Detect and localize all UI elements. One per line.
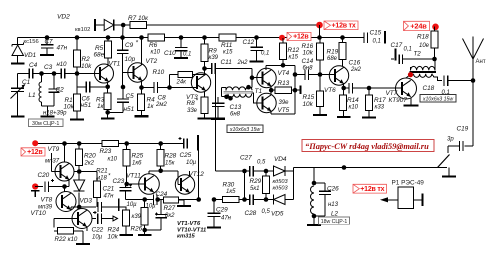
svg-text:н10: н10	[57, 62, 68, 68]
svg-text:VT7: VT7	[386, 90, 398, 97]
svg-text:х10х6х3 15w: х10х6х3 15w	[422, 96, 455, 102]
svg-text:VT4: VT4	[278, 70, 290, 77]
VT3 collector node	[202, 66, 207, 71]
junction bar	[118, 199, 120, 212]
svg-text:C1: C1	[22, 79, 31, 86]
svg-text:15к: 15к	[165, 161, 176, 167]
svg-text:C22: C22	[92, 227, 104, 234]
svg-text:R13: R13	[278, 80, 290, 87]
resistor R12 k15	[282, 38, 284, 43]
capacitor C26 n13	[314, 182, 325, 184]
svg-text:L1: L1	[29, 92, 37, 99]
VT8 emitter to audio wire	[70, 207, 72, 210]
capacitor C13 6n8	[217, 97, 219, 103]
transformer T1	[222, 87, 227, 89]
capacitor C25 10u output	[178, 138, 181, 140]
label +12в тх near relay	[353, 184, 387, 193]
transistor VT1	[95, 64, 114, 83]
resistor R2 10k	[75, 35, 80, 40]
capacitor C21 47n	[97, 202, 99, 212]
resistor R4 1k	[141, 88, 143, 95]
svg-text:+12в: +12в	[293, 34, 309, 41]
transistor VT9 мп37	[55, 162, 74, 181]
svg-text:2м2: 2м2	[155, 102, 167, 108]
capacitor C10 0.1	[179, 35, 184, 40]
svg-text:2к2: 2к2	[84, 161, 95, 167]
node C8-R10-VT3 base	[167, 85, 172, 90]
svg-text:мп37: мп37	[45, 159, 60, 165]
svg-text:Т1: Т1	[255, 88, 263, 95]
RX line down from C11 to limiter	[215, 74, 217, 171]
capacitor C6 n51	[77, 86, 86, 88]
capacitor C18 0.1	[443, 75, 445, 86]
node VT7 collector red dot	[406, 75, 410, 78]
svg-text:VT6: VT6	[324, 87, 336, 94]
svg-text:VT12: VT12	[189, 171, 205, 178]
svg-text:к10: к10	[349, 105, 359, 111]
capacitor C19 3p	[465, 145, 473, 147]
RX input wire y=73.5	[18, 73, 30, 75]
wire rail A +12v tx, y=25	[95, 24, 130, 26]
transistor VT6	[329, 66, 348, 85]
svg-text:3р: 3р	[447, 137, 454, 143]
resistor R20 2k2	[77, 141, 82, 146]
ground under R14	[343, 116, 345, 118]
svg-text:Р1 РЭС-49: Р1 РЭС-49	[392, 180, 425, 187]
svg-text:0,1: 0,1	[183, 52, 191, 58]
resistor R17 k33	[368, 88, 370, 95]
resistor R1 10k	[76, 74, 78, 95]
svg-text:24к: 24к	[176, 80, 188, 86]
svg-text:VD4: VD4	[274, 156, 287, 163]
svg-text:C29: C29	[216, 207, 228, 214]
svg-text:R28: R28	[165, 153, 177, 160]
svg-text:C23: C23	[113, 178, 125, 185]
node on antenna wire	[342, 165, 347, 170]
antenna RX wire y=167.5	[294, 167, 448, 169]
emitter node VT1	[107, 82, 109, 87]
svg-text:C3: C3	[44, 64, 53, 71]
resistor R13 39e	[270, 86, 272, 90]
transistor VT10	[72, 209, 92, 229]
svg-text:VT10: VT10	[31, 210, 47, 217]
svg-text:68е: 68е	[327, 56, 338, 62]
capacitor C23 10u	[125, 184, 127, 187]
resistor R9 k39	[202, 35, 207, 40]
resistor R6 k10	[148, 34, 165, 41]
svg-text:+24в: +24в	[410, 22, 427, 31]
svg-text:2н2: 2н2	[350, 67, 362, 73]
resistor R22 k10	[53, 219, 55, 228]
transistor VT7 KT907	[396, 78, 417, 99]
svg-text:T2: T2	[414, 51, 422, 58]
VT12 base wire	[161, 170, 178, 172]
svg-text:кв102: кв102	[75, 27, 90, 33]
core spec label T2	[420, 95, 456, 103]
svg-text:VT1-VT6: VT1-VT6	[177, 221, 201, 227]
svg-text:R15: R15	[303, 94, 315, 101]
label +24в	[404, 21, 430, 30]
svg-text:кд503: кд503	[273, 186, 289, 192]
svg-text:39е: 39е	[279, 100, 290, 106]
capacitor C15 0.1	[363, 32, 365, 43]
svg-text:10µ: 10µ	[127, 202, 138, 208]
VT10 emitter ground	[86, 227, 88, 231]
VT9 emitter wire right	[74, 171, 97, 173]
svg-text:R18: R18	[417, 34, 429, 41]
ground under C29	[213, 226, 215, 228]
ground under R1	[76, 119, 78, 120]
capacitor C2	[52, 71, 57, 76]
svg-text:к39: к39	[132, 214, 142, 220]
antenna feed line	[471, 78, 476, 83]
capacitor C28 0.5	[245, 199, 250, 201]
svg-text:н51: н51	[124, 106, 135, 113]
diode VD4 кд503	[266, 170, 274, 172]
svg-text:R25: R25	[132, 153, 144, 160]
svg-text:КТ907: КТ907	[389, 97, 408, 104]
svg-text:0,5: 0,5	[257, 160, 266, 166]
svg-text:R29: R29	[250, 178, 262, 185]
svg-text:47н: 47н	[221, 216, 232, 222]
svg-text:R30: R30	[223, 182, 235, 189]
node +12v tx red dot	[316, 22, 323, 29]
coil spec label L2	[319, 217, 350, 224]
ground under C12	[256, 60, 258, 62]
svg-text:10p: 10p	[125, 56, 136, 63]
capacitor C27 0.5	[245, 170, 250, 172]
svg-text:R22 к10: R22 к10	[55, 236, 78, 243]
coil spec label 30м СЦР-1	[29, 119, 64, 127]
svg-text:R8: R8	[187, 100, 196, 107]
capacitor C17 0.1	[391, 58, 394, 60]
svg-text:C14: C14	[302, 58, 314, 65]
resistor R25 1k6	[124, 141, 129, 146]
svg-text:10е: 10е	[419, 43, 430, 49]
svg-text:кс156: кс156	[24, 39, 39, 45]
svg-text:R26: R26	[131, 226, 143, 233]
ground under VT7 emitter	[410, 98, 412, 104]
resistor R18 10e	[434, 27, 436, 32]
ground under L1 C2	[47, 115, 49, 117]
svg-text:R10: R10	[153, 69, 165, 76]
svg-text:н51: н51	[81, 102, 92, 109]
svg-text:C16: C16	[349, 60, 361, 67]
VT10 base wire	[54, 218, 78, 220]
limiter right vertical	[293, 168, 295, 200]
svg-text:VT2: VT2	[146, 58, 158, 65]
wire right vertical x=295	[294, 65, 296, 114]
transistor VT11	[139, 174, 160, 195]
svg-text:10µ: 10µ	[186, 160, 197, 166]
svg-text:R6: R6	[149, 42, 158, 49]
ground under R26	[144, 234, 146, 236]
svg-text:68е: 68е	[94, 52, 105, 59]
svg-text:33е: 33е	[187, 108, 198, 114]
VT6 emitter node	[343, 84, 345, 88]
resistor R11 k15	[219, 34, 236, 41]
varicap diode VD2	[94, 19, 96, 31]
label +12в	[287, 32, 311, 40]
svg-text:C9: C9	[125, 42, 134, 49]
svg-text:1к5: 1к5	[226, 189, 236, 195]
svg-text:н18+39р: н18+39р	[43, 111, 67, 117]
wire output terminal down	[197, 151, 199, 200]
ground under R3	[107, 112, 109, 118]
svg-text:47н: 47н	[104, 194, 115, 200]
inductor L1	[39, 71, 44, 76]
svg-text:R23: R23	[100, 148, 112, 155]
svg-text:R9: R9	[209, 48, 218, 55]
svg-text:C20: C20	[38, 172, 50, 179]
resistor R5 68e	[106, 35, 111, 40]
ground under C7	[46, 54, 48, 55]
svg-text:VT9: VT9	[48, 146, 60, 153]
svg-text:к39: к39	[209, 55, 219, 61]
svg-text:R27: R27	[164, 205, 176, 212]
svg-text:+12в тх: +12в тх	[332, 23, 356, 30]
capacitor C16 2n2	[344, 87, 349, 89]
ground under R17	[368, 117, 370, 118]
wire T1 to VT5 base	[251, 93, 262, 103]
svg-text:R2: R2	[82, 56, 91, 63]
svg-text:1к: 1к	[97, 103, 105, 110]
svg-text:VT8: VT8	[41, 197, 53, 204]
resistor R27 8k2	[164, 197, 179, 203]
transistor VT2	[128, 63, 147, 82]
TX-RX switch	[438, 155, 450, 168]
ground under R24	[125, 234, 127, 236]
svg-text:6н8: 6н8	[303, 66, 314, 72]
ground under switch	[448, 168, 450, 176]
svg-text:+12в тх: +12в тх	[360, 186, 384, 193]
node +12v red dot on rail B	[279, 35, 285, 41]
svg-text:к10: к10	[108, 157, 118, 163]
svg-text:47н: 47н	[57, 45, 68, 52]
svg-text:R14: R14	[347, 97, 359, 104]
ground under C1	[17, 115, 19, 117]
ground under C13	[217, 118, 219, 119]
ground under C10	[180, 57, 182, 58]
svg-text:VD2: VD2	[57, 14, 70, 21]
capacitor C4	[28, 69, 30, 79]
label +12в тх	[324, 21, 358, 30]
svg-text:VT10-VT11: VT10-VT11	[177, 227, 206, 233]
svg-text:C15: C15	[370, 30, 382, 37]
svg-text:C25: C25	[180, 152, 192, 159]
VT2 emitter node wire to C8	[141, 81, 143, 88]
diode VD3	[78, 172, 80, 181]
capacitor C20 10u	[44, 181, 46, 192]
svg-text:R21: R21	[96, 168, 108, 175]
cap stub near C14	[295, 89, 301, 91]
svg-text:C19: C19	[457, 126, 469, 133]
svg-text:C12: C12	[243, 39, 255, 46]
resistor R23 k10	[102, 140, 119, 146]
resistor R14 k10	[343, 88, 345, 95]
capacitor C3 n10	[60, 69, 62, 79]
resistor R26 k39	[144, 200, 146, 208]
audio coupling wire y=199.5	[126, 199, 154, 201]
node +12v audio red dot	[32, 140, 38, 146]
potentiometer R24 10k	[123, 210, 130, 226]
svg-text:10k: 10k	[81, 63, 92, 70]
audio +12v rail y=143.5	[35, 143, 102, 145]
svg-text:C4: C4	[29, 62, 38, 69]
resistor R3 1k	[107, 87, 109, 93]
transistor VT5	[257, 93, 276, 112]
svg-text:C11: C11	[221, 59, 233, 66]
svg-text:C28: C28	[245, 210, 257, 217]
capacitor C22 10u	[92, 218, 96, 220]
svg-text:1к6: 1к6	[132, 161, 142, 167]
L2 C26 tank	[313, 168, 315, 184]
resistor R8 33e	[204, 92, 206, 97]
svg-text:10k: 10k	[303, 50, 314, 57]
svg-text:10µ: 10µ	[92, 235, 103, 241]
svg-text:Ант: Ант	[476, 59, 486, 65]
VT11 collector wire	[148, 171, 150, 174]
svg-text:10k: 10k	[303, 101, 314, 108]
svg-text:C5: C5	[126, 93, 135, 100]
transistor VT12	[175, 175, 194, 194]
svg-text:C21: C21	[103, 186, 115, 193]
svg-text:C8: C8	[158, 95, 167, 102]
transistor VT4	[257, 68, 276, 87]
svg-text:C13: C13	[230, 104, 242, 111]
zener diode VD1 кс156	[17, 38, 19, 45]
svg-text:0,1: 0,1	[373, 39, 381, 45]
svg-text:0,5: 0,5	[262, 209, 271, 215]
svg-text:VD1: VD1	[24, 52, 36, 59]
ground under R8	[204, 118, 206, 119]
resistor R29 5k1	[265, 171, 267, 176]
svg-text:C17: C17	[391, 42, 403, 49]
svg-text:R20: R20	[84, 153, 96, 160]
svg-text:VT5: VT5	[278, 107, 290, 114]
capacitor C14 6n8	[293, 72, 298, 77]
ground under VT12 emitter	[183, 205, 185, 207]
resistor R30 1k5	[214, 199, 223, 201]
resistor R28 15k	[158, 141, 163, 146]
antenna	[472, 37, 474, 60]
svg-text:C2: C2	[56, 87, 65, 94]
svg-text:6н8: 6н8	[230, 112, 241, 118]
microphone input	[32, 183, 38, 189]
svg-text:х10х6х3 15w: х10х6х3 15w	[229, 127, 262, 133]
svg-text:VT1: VT1	[109, 61, 121, 68]
transistor VT3	[191, 73, 210, 92]
svg-text:R7 10к: R7 10к	[128, 15, 149, 22]
wire rail B, y=37.5	[18, 37, 148, 39]
svg-text:10k: 10k	[64, 104, 75, 111]
limiter left vertical	[242, 169, 247, 174]
resistor R21 м18	[96, 172, 98, 182]
capacitor C12 0.1	[254, 35, 259, 40]
svg-text:“Парус-CW rd4ag vladi59@mail.r: “Парус-CW rd4ag vladi59@mail.ru	[305, 142, 429, 151]
ground under L2	[313, 224, 315, 226]
svg-text:2н2: 2н2	[237, 60, 249, 66]
svg-text:VD5: VD5	[271, 211, 284, 218]
svg-text:1к: 1к	[147, 103, 155, 110]
svg-text:10k: 10k	[108, 234, 119, 241]
resistor R15 10k	[319, 75, 321, 92]
VT2 collector wire	[139, 35, 144, 40]
svg-text:0,1: 0,1	[442, 90, 450, 96]
label +12в audio	[21, 148, 45, 156]
capacitor C29 47n	[213, 200, 215, 214]
svg-text:C26: C26	[327, 186, 339, 193]
wire C11 to VT4 base and T1	[251, 69, 253, 88]
capacitor C8 2m2	[153, 82, 155, 93]
svg-text:C7: C7	[45, 39, 53, 46]
resistor R10 24k feedback	[169, 75, 171, 88]
svg-text:VD3: VD3	[80, 198, 93, 205]
banner Парус-CW	[302, 140, 434, 152]
resistor R19 68e	[340, 35, 345, 40]
capacitor C9 10p	[120, 35, 125, 40]
node +24v red dot	[432, 24, 439, 31]
svg-text:кд503: кд503	[273, 179, 289, 185]
variable capacitor C1	[11, 87, 24, 89]
T2 secondary out wire	[432, 74, 442, 81]
svg-text:к15: к15	[289, 55, 299, 61]
svg-text:0,1: 0,1	[404, 47, 412, 53]
capacitor C24 10u	[152, 194, 154, 205]
svg-text:VT11: VT11	[126, 173, 141, 180]
VT4 collector wire	[265, 65, 267, 70]
svg-text:C10: C10	[164, 50, 176, 57]
svg-text:к10: к10	[151, 50, 161, 56]
svg-text:R17: R17	[374, 97, 386, 104]
resistor R7 10k	[130, 22, 147, 29]
ground under R15	[319, 114, 321, 116]
svg-text:10µ: 10µ	[146, 204, 157, 210]
resistor R16 10k	[317, 35, 322, 40]
svg-text:8к2: 8к2	[165, 213, 175, 219]
svg-text:18w СЦР-1: 18w СЦР-1	[321, 219, 348, 225]
svg-text:+12в: +12в	[27, 149, 43, 156]
svg-text:L2: L2	[331, 211, 338, 218]
svg-text:R19: R19	[327, 49, 339, 56]
capacitor C11 2n2	[205, 68, 212, 70]
transistor VT8 мп39	[56, 192, 76, 212]
capacitor C7 47n	[45, 35, 50, 40]
capacitor C5 n51	[108, 111, 123, 113]
svg-text:R12: R12	[288, 47, 300, 54]
svg-text:кт315: кт315	[177, 234, 196, 240]
ground under R4	[141, 115, 143, 116]
svg-text:30м СЦР-1: 30м СЦР-1	[32, 121, 59, 127]
svg-text:5к1: 5к1	[250, 186, 260, 192]
svg-text:к33: к33	[375, 105, 385, 111]
core spec label T1	[227, 125, 263, 133]
transformer T2	[411, 66, 435, 70]
svg-text:к15: к15	[223, 50, 233, 56]
VT9 base riser	[51, 153, 53, 172]
svg-text:C18: C18	[423, 85, 435, 92]
svg-text:0,1: 0,1	[261, 51, 269, 57]
svg-text:R24: R24	[108, 227, 120, 234]
diode VD5 кд503	[266, 199, 274, 201]
capacitor near R27 10u	[160, 200, 162, 215]
svg-text:R11: R11	[221, 42, 233, 49]
svg-text:н13: н13	[328, 202, 339, 208]
svg-text:м18: м18	[96, 176, 107, 182]
node C9 top on rail A	[121, 23, 126, 28]
svg-text:C27: C27	[240, 155, 252, 162]
ground under VD1	[17, 63, 19, 64]
